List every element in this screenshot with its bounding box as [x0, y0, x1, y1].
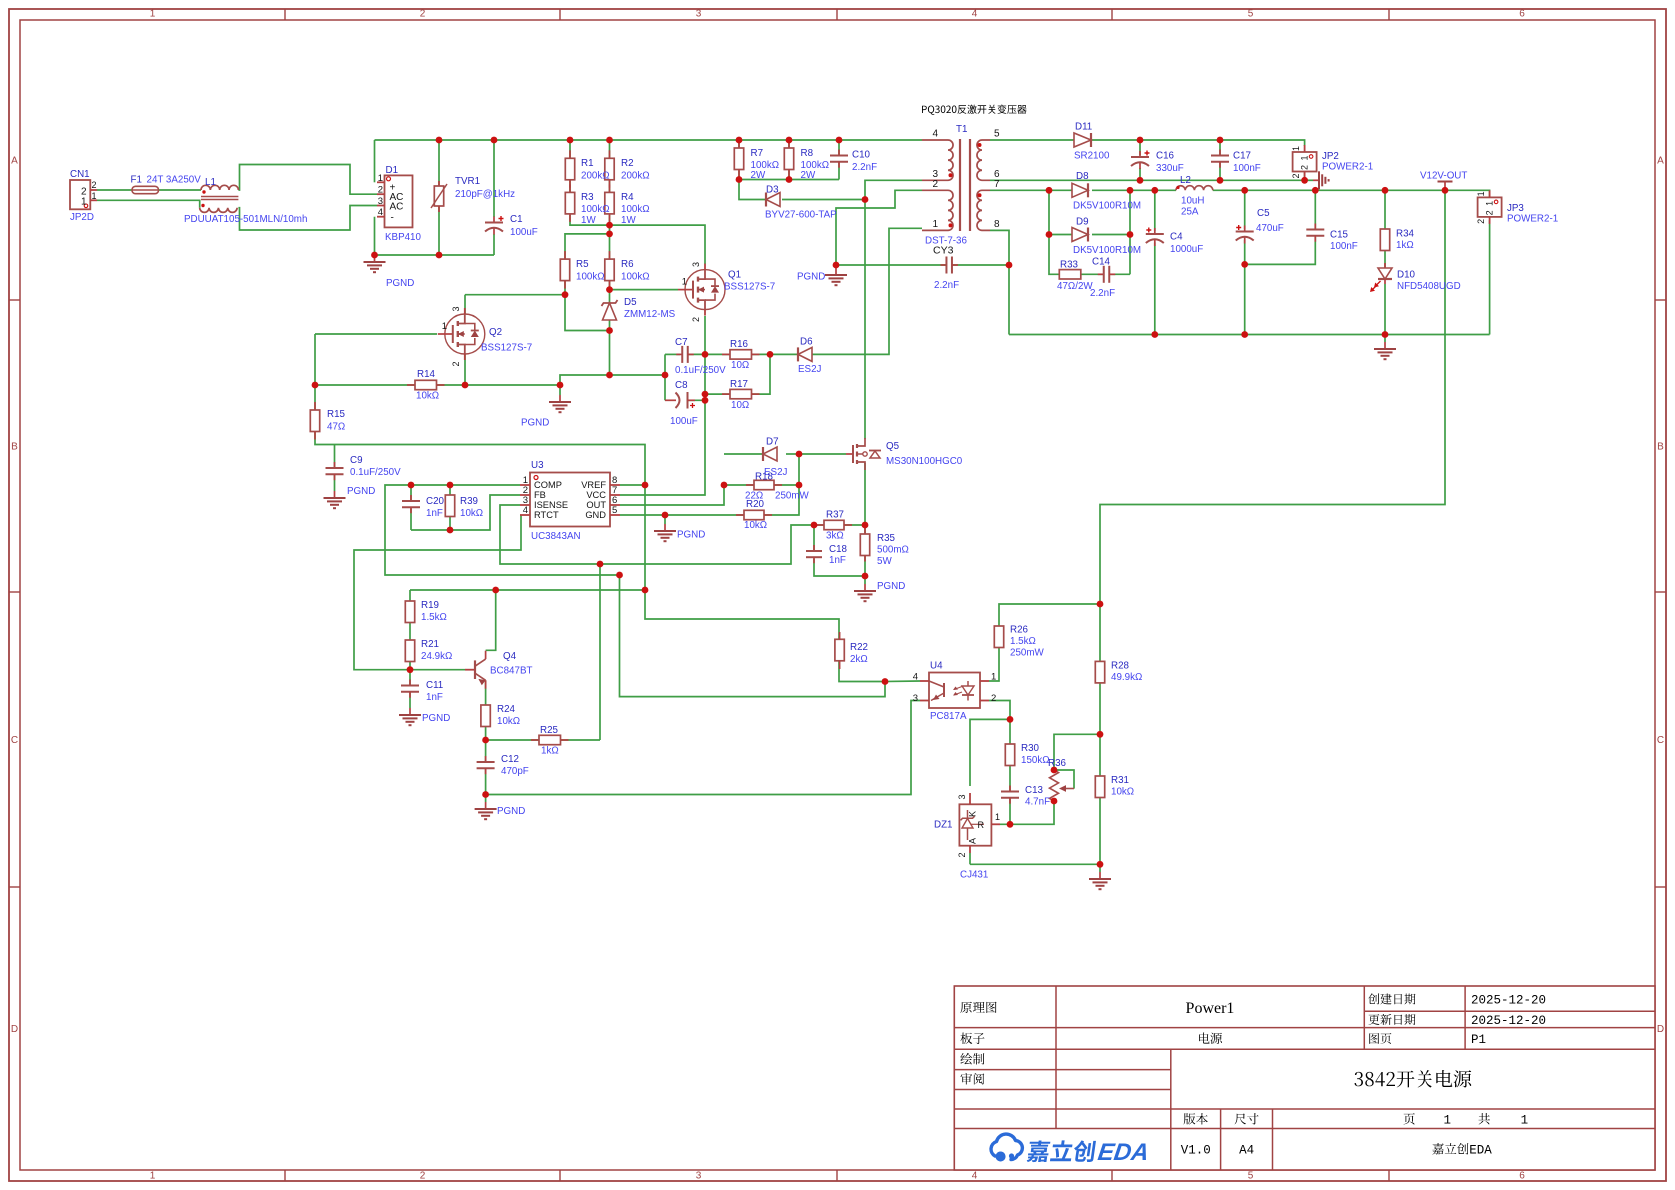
- resistor R6: [609, 251, 611, 259]
- svg-text:L2: L2: [1180, 175, 1191, 186]
- resistor R4: [609, 184, 611, 192]
- wire output GND rail: [1009, 334, 1490, 336]
- svg-text:1: 1: [150, 1171, 156, 1182]
- ground PGND C11: [409, 708, 411, 715]
- svg-text:CN1: CN1: [70, 169, 90, 180]
- svg-text:C: C: [1657, 735, 1664, 746]
- svg-text:4: 4: [913, 672, 918, 683]
- net flag V12V-OUT: [1438, 181, 1453, 183]
- svg-text:R1: R1: [581, 158, 594, 169]
- wire U4 pin1 to R26: [989, 646, 999, 681]
- svg-text:4: 4: [523, 505, 528, 516]
- svg-text:250mW: 250mW: [775, 491, 810, 502]
- svg-text:GND: GND: [585, 510, 606, 520]
- wire FB net: [411, 495, 520, 530]
- svg-text:R14: R14: [417, 369, 436, 380]
- svg-text:10Ω: 10Ω: [731, 360, 749, 371]
- wire C15 top: [1314, 190, 1316, 229]
- svg-text:D10: D10: [1397, 270, 1416, 281]
- svg-text:2: 2: [1300, 165, 1310, 170]
- svg-text:RTCT: RTCT: [534, 510, 559, 520]
- transistor Q4: [465, 669, 475, 671]
- svg-text:49.9kΩ: 49.9kΩ: [1111, 672, 1142, 683]
- wire D5 bottom: [609, 319, 611, 375]
- svg-text:1: 1: [991, 672, 996, 683]
- svg-text:24T 3A250V: 24T 3A250V: [147, 175, 202, 186]
- wire C9 bottom: [334, 475, 336, 491]
- wire C8 right: [688, 399, 706, 401]
- wire C13 bottom: [1009, 798, 1011, 825]
- wire Q2 source: [464, 354, 466, 385]
- svg-text:T1: T1: [956, 124, 967, 135]
- wire C16 bottom: [1139, 168, 1141, 180]
- capacitor CY3: [940, 264, 946, 266]
- svg-text:R20: R20: [746, 499, 765, 510]
- wire Q4 emitter to R24: [485, 680, 487, 705]
- svg-text:A: A: [1657, 156, 1664, 167]
- svg-text:POWER2-1: POWER2-1: [1507, 214, 1558, 225]
- svg-text:3: 3: [957, 794, 967, 799]
- svg-text:NFD5408UGD: NFD5408UGD: [1397, 281, 1461, 292]
- svg-text:100kΩ: 100kΩ: [576, 272, 605, 283]
- shunt regulator DZ1 CJ431: [959, 804, 991, 845]
- wire R8 top: [788, 140, 790, 148]
- wire T1 pin3 to Q5 drain: [864, 200, 866, 440]
- svg-text:D8: D8: [1076, 171, 1089, 182]
- wire C11 bottom: [409, 692, 411, 708]
- wire clamp to D3: [739, 180, 766, 200]
- ground PGND T1: [835, 268, 837, 275]
- connector JP3: [1478, 197, 1502, 217]
- svg-text:5W: 5W: [877, 556, 892, 567]
- wire D11 to JP2: [1091, 140, 1305, 146]
- wire C20 top: [410, 485, 412, 501]
- wire CY3 right: [952, 264, 1009, 266]
- svg-text:BSS127S-7: BSS127S-7: [724, 282, 775, 293]
- wire C9 top: [334, 445, 336, 469]
- resistor R1: [569, 150, 571, 158]
- svg-text:PDUUAT105-501MLN/10mh: PDUUAT105-501MLN/10mh: [184, 214, 307, 225]
- capacitor C17: [1219, 150, 1221, 156]
- svg-text:3: 3: [691, 262, 701, 267]
- svg-text:100uF: 100uF: [510, 227, 538, 238]
- wire T1 pin2 to PGND: [836, 190, 922, 265]
- wire R6 top: [609, 234, 611, 259]
- resistor R24: [485, 704, 487, 706]
- wire PGND stub: [559, 385, 561, 395]
- svg-text:D6: D6: [800, 337, 813, 348]
- resistor R22: [835, 639, 844, 661]
- resistor R15: [314, 402, 316, 410]
- wire C4 bottom: [1154, 243, 1156, 335]
- wire C5 to C15: [1245, 237, 1316, 264]
- wire C18 bottom: [814, 559, 865, 576]
- capacitor C14: [1098, 273, 1104, 275]
- svg-text:JP2D: JP2D: [70, 212, 94, 223]
- svg-text:2: 2: [1485, 210, 1495, 215]
- svg-text:D9: D9: [1076, 217, 1089, 228]
- capacitor C7: [676, 353, 682, 355]
- wire Q5 gate: [799, 453, 846, 455]
- capacitor C10: [838, 150, 840, 156]
- wire R31 bottom: [1099, 798, 1101, 865]
- wire C17 top: [1219, 140, 1221, 156]
- svg-text:1: 1: [932, 219, 938, 230]
- resistor R39: [445, 495, 454, 517]
- ground rotated JP2: [1313, 179, 1319, 181]
- svg-text:C11: C11: [426, 680, 443, 691]
- resistor R37: [816, 524, 824, 526]
- wire C10 bottom: [838, 162, 840, 180]
- svg-text:C16: C16: [1156, 151, 1175, 162]
- wire R1 top: [569, 140, 571, 158]
- svg-text:PGND: PGND: [497, 806, 525, 817]
- wire D9 left: [1049, 234, 1072, 236]
- wire R25 left: [486, 739, 539, 741]
- svg-text:1: 1: [1300, 155, 1310, 160]
- svg-text:2025-12-20: 2025-12-20: [1471, 1014, 1546, 1028]
- wire VREF to R22: [645, 590, 839, 640]
- ground PGND D1: [374, 255, 376, 262]
- svg-text:10Ω: 10Ω: [731, 400, 749, 411]
- svg-text:D3: D3: [766, 185, 779, 196]
- svg-text:0.1uF/250V: 0.1uF/250V: [350, 467, 401, 478]
- wire R35 bottom: [864, 554, 866, 576]
- wire D1 pin4 to PGND rail: [375, 217, 495, 255]
- svg-text:2: 2: [451, 361, 461, 366]
- wire R1-R3: [569, 179, 571, 193]
- svg-text:FB: FB: [534, 490, 546, 500]
- svg-text:A4: A4: [1239, 1144, 1254, 1158]
- svg-text:500mΩ: 500mΩ: [877, 545, 909, 556]
- svg-text:DZ1: DZ1: [934, 820, 953, 831]
- svg-text:KBP410: KBP410: [385, 232, 422, 243]
- wire C1 top: [493, 140, 495, 217]
- wire VREF row: [410, 589, 645, 591]
- svg-text:EDA: EDA: [1096, 1139, 1150, 1166]
- wire PGND stub R31: [1099, 864, 1101, 872]
- wire Q5 source: [864, 463, 866, 525]
- ground PGND R35: [864, 584, 866, 591]
- wire U4 pin3 net: [486, 701, 920, 795]
- svg-text:AC: AC: [390, 202, 404, 213]
- wire to R5 top: [565, 234, 610, 259]
- wire U4 pin2: [989, 701, 1010, 720]
- resistor R8: [788, 140, 790, 148]
- svg-text:PC817A: PC817A: [930, 711, 967, 722]
- svg-text:6: 6: [1519, 1171, 1525, 1182]
- svg-text:R8: R8: [801, 148, 814, 159]
- wire R17 left: [705, 393, 730, 395]
- svg-text:R35: R35: [877, 533, 896, 544]
- zener diode D5: [602, 300, 618, 306]
- wire R36 wiper: [1054, 770, 1074, 789]
- wire VCC to Q1 source: [620, 316, 705, 495]
- wire C4 top: [1154, 190, 1156, 231]
- wire D3 to drain node: [782, 199, 865, 201]
- wire C18 top: [813, 525, 815, 551]
- IC U3 UC3843AN: [530, 473, 610, 527]
- svg-text:10kΩ: 10kΩ: [1111, 787, 1134, 798]
- svg-text:C8: C8: [675, 380, 688, 391]
- svg-text:R7: R7: [751, 148, 764, 159]
- svg-text:R: R: [978, 820, 985, 830]
- wire DZ1 ref row: [1000, 801, 1054, 824]
- wire R15 top: [314, 385, 316, 410]
- svg-text:2: 2: [420, 1171, 426, 1182]
- svg-text:1: 1: [1521, 1114, 1529, 1128]
- wire OUT net: [620, 485, 724, 505]
- svg-text:1: 1: [150, 9, 156, 20]
- wire snub right column: [1129, 190, 1131, 274]
- svg-text:1: 1: [378, 173, 383, 184]
- wire ISENSE net: [500, 505, 814, 564]
- svg-text:Q1: Q1: [728, 270, 741, 281]
- svg-text:100nF: 100nF: [1330, 241, 1358, 252]
- resistor R35: [864, 528, 866, 534]
- wire D8 to L2: [1092, 189, 1176, 191]
- svg-text:R25: R25: [540, 725, 559, 736]
- wire R16 to D6: [751, 353, 798, 355]
- svg-text:2W: 2W: [801, 170, 816, 181]
- wire Q2 gate: [315, 333, 437, 335]
- svg-text:2.2nF: 2.2nF: [1090, 288, 1115, 299]
- resistor R30: [1009, 743, 1011, 745]
- title block: [954, 986, 1655, 1170]
- svg-text:F1: F1: [131, 175, 142, 186]
- svg-text:V12V-OUT: V12V-OUT: [1420, 171, 1467, 182]
- svg-text:3: 3: [378, 196, 383, 207]
- connector JP2: [1293, 152, 1317, 172]
- diode D7: [763, 447, 777, 461]
- svg-text:VREF: VREF: [581, 480, 606, 490]
- svg-text:R3: R3: [581, 192, 594, 203]
- resistor R7: [738, 140, 740, 148]
- ground PGND C9: [334, 491, 336, 498]
- svg-text:B: B: [11, 442, 18, 453]
- wire R3 bottom: [570, 215, 610, 225]
- wire R15 bottom to VREF: [315, 429, 645, 485]
- svg-text:BC847BT: BC847BT: [490, 666, 532, 677]
- svg-text:R34: R34: [1396, 229, 1415, 240]
- svg-text:8: 8: [994, 219, 1000, 230]
- svg-text:150kΩ: 150kΩ: [1021, 755, 1050, 766]
- svg-text:2: 2: [991, 693, 996, 704]
- wire C20 bottom: [410, 509, 412, 530]
- svg-text:1nF: 1nF: [426, 692, 443, 703]
- svg-text:200kΩ: 200kΩ: [621, 171, 650, 182]
- svg-text:5: 5: [994, 129, 1000, 140]
- capacitor C16: [1139, 151, 1141, 157]
- svg-text:1kΩ: 1kΩ: [541, 746, 559, 757]
- svg-text:6: 6: [1519, 9, 1525, 20]
- wire JP3 pin2 riser: [1489, 220, 1491, 334]
- svg-text:4: 4: [972, 9, 978, 20]
- wire T1 pin7 to D8: [990, 189, 1072, 191]
- capacitor C15: [1314, 224, 1316, 230]
- svg-text:100uF: 100uF: [670, 416, 698, 427]
- svg-text:PGND: PGND: [677, 530, 705, 541]
- wire DZ1 anode row: [970, 863, 1100, 865]
- capacitor C11: [409, 680, 411, 686]
- capacitor C5: [1244, 226, 1246, 232]
- svg-text:10uH: 10uH: [1181, 196, 1204, 207]
- svg-text:100nF: 100nF: [1233, 163, 1261, 174]
- wire to DZ1 cathode: [970, 719, 1010, 786]
- svg-text:U4: U4: [930, 661, 943, 672]
- svg-text:OUT: OUT: [586, 500, 606, 510]
- svg-text:BYV27-600-TAP: BYV27-600-TAP: [765, 210, 837, 221]
- svg-text:PGND: PGND: [347, 486, 375, 497]
- svg-text:R2: R2: [621, 158, 634, 169]
- wire R21 bottom: [409, 660, 411, 670]
- svg-text:3: 3: [451, 306, 461, 311]
- svg-text:2: 2: [932, 179, 938, 190]
- svg-text:SR2100: SR2100: [1074, 151, 1110, 162]
- svg-text:4: 4: [378, 207, 383, 218]
- wire R26 top: [999, 604, 1100, 626]
- svg-text:C: C: [11, 735, 18, 746]
- svg-text:C20: C20: [426, 496, 445, 507]
- wire to C7/C8 mid: [560, 375, 665, 385]
- svg-text:UC3843AN: UC3843AN: [531, 531, 581, 542]
- svg-text:DK5V100R10M: DK5V100R10M: [1073, 201, 1141, 212]
- wire R18 right: [774, 484, 799, 486]
- wire CY3 left: [836, 264, 947, 266]
- wire R14 right: [436, 384, 560, 386]
- wire L1 to D1 pin3: [238, 206, 377, 231]
- wire R20 right riser: [764, 454, 799, 515]
- MOSFET Q1: [685, 270, 725, 310]
- svg-text:100kΩ: 100kΩ: [621, 272, 650, 283]
- wire PGND stub out: [1384, 335, 1386, 343]
- svg-text:10kΩ: 10kΩ: [460, 508, 483, 519]
- wire Q1 gate: [610, 289, 679, 291]
- svg-text:C17: C17: [1233, 151, 1251, 162]
- wire C7C8 left column: [664, 354, 666, 400]
- svg-text:EDA: EDA: [1469, 1144, 1492, 1158]
- svg-text:R37: R37: [826, 510, 844, 521]
- svg-text:A: A: [11, 156, 18, 167]
- wire R25 riser: [599, 564, 601, 740]
- resistor R25: [531, 739, 539, 741]
- wire C1 bottom: [493, 234, 495, 255]
- wire gate to R14 node: [314, 334, 316, 385]
- wire D1 pin1 riser: [374, 140, 376, 182]
- wire snub left column: [1049, 190, 1059, 274]
- wire clamp bottom row: [739, 179, 839, 181]
- transformer T1: [959, 139, 961, 231]
- wire C11 top: [409, 670, 411, 686]
- svg-text:C1: C1: [510, 214, 523, 225]
- wire V12V sense: [1100, 190, 1445, 604]
- svg-text:D5: D5: [624, 297, 637, 308]
- wire R35 top: [864, 525, 866, 534]
- wire PGND stub R35: [864, 576, 866, 584]
- svg-text:1: 1: [92, 191, 97, 201]
- svg-text:Q4: Q4: [503, 651, 517, 662]
- wire PGND stub U3: [664, 515, 666, 524]
- svg-text:R33: R33: [1060, 260, 1079, 271]
- svg-text:3: 3: [696, 9, 702, 20]
- wire D10 bottom: [1384, 284, 1386, 335]
- wire RTCT net: [354, 515, 521, 670]
- wire to rot ground: [1305, 179, 1313, 181]
- wire C14 right: [1109, 273, 1130, 275]
- capacitor C1: [493, 217, 495, 223]
- svg-text:POWER2-1: POWER2-1: [1322, 162, 1373, 173]
- svg-text:1W: 1W: [581, 215, 596, 226]
- wire Q2 drain riser: [464, 295, 466, 314]
- svg-text:CJ431: CJ431: [960, 870, 988, 881]
- diode D8: [1072, 183, 1088, 197]
- svg-text:PGND: PGND: [877, 581, 905, 592]
- svg-text:R16: R16: [730, 339, 749, 350]
- wire JP2 pin2 stub: [1304, 172, 1306, 181]
- ground output 2: [1384, 342, 1386, 349]
- svg-text:1nF: 1nF: [426, 508, 443, 519]
- wire CN1 pin1 to L1: [97, 200, 200, 207]
- svg-text:K: K: [968, 811, 978, 817]
- MOSFET Q5: [846, 453, 853, 455]
- svg-text:C15: C15: [1330, 230, 1349, 241]
- svg-text:10kΩ: 10kΩ: [416, 391, 439, 402]
- potentiometer R36: [1050, 770, 1059, 801]
- svg-text:4: 4: [932, 129, 938, 140]
- wire VREF down: [644, 485, 646, 590]
- svg-text:2: 2: [92, 180, 97, 190]
- resistor R17: [722, 393, 730, 395]
- wire R31 top: [1099, 734, 1101, 776]
- resistor R18: [746, 484, 754, 486]
- svg-text:C4: C4: [1170, 232, 1183, 243]
- svg-text:D1: D1: [386, 165, 399, 176]
- svg-text:DK5V100R10M: DK5V100R10M: [1073, 245, 1141, 256]
- wire C7 to R16: [688, 353, 731, 355]
- wire D7 right: [786, 453, 799, 455]
- ground PGND C12: [485, 802, 487, 809]
- svg-text:PGND: PGND: [797, 272, 825, 283]
- svg-text:Q5: Q5: [886, 441, 900, 452]
- schematic title PQ3020: [922, 106, 957, 115]
- svg-text:C9: C9: [350, 455, 363, 466]
- wire R39 bottom: [449, 517, 451, 531]
- svg-text:1: 1: [1291, 146, 1301, 151]
- svg-text:U3: U3: [531, 460, 544, 471]
- optocoupler U4 PC817A: [929, 673, 980, 709]
- svg-text:Q2: Q2: [489, 327, 502, 338]
- svg-text:1: 1: [442, 321, 447, 332]
- svg-text:D7: D7: [766, 437, 779, 448]
- svg-text:PGND: PGND: [386, 278, 414, 289]
- svg-text:C18: C18: [829, 544, 848, 555]
- wire TVR1 bottom: [438, 206, 440, 255]
- svg-text:470uF: 470uF: [1256, 223, 1284, 234]
- svg-text:R18: R18: [755, 472, 774, 483]
- svg-text:C10: C10: [852, 150, 871, 161]
- wire C5 bottom: [1244, 240, 1246, 335]
- wire R37 right: [844, 524, 865, 526]
- svg-text:1: 1: [81, 197, 87, 208]
- resistor R33: [1058, 273, 1060, 275]
- svg-text:1.5kΩ: 1.5kΩ: [1010, 636, 1036, 647]
- wire R19-R21: [409, 621, 411, 641]
- wire C12 bottom: [485, 768, 487, 794]
- svg-text:5: 5: [1248, 9, 1254, 20]
- capacitor C4: [1154, 228, 1156, 234]
- resistor R2: [609, 150, 611, 158]
- resistor R20: [736, 514, 744, 516]
